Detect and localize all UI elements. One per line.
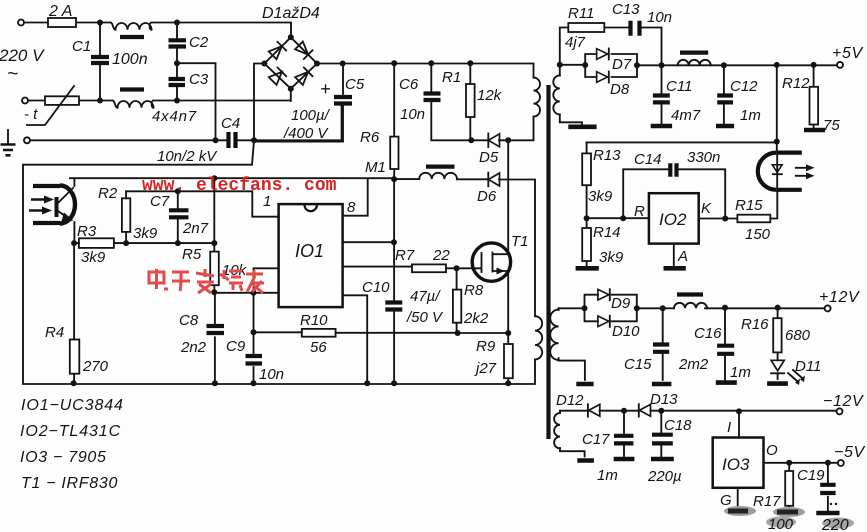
svg-text:150: 150 [745,226,771,243]
svg-text:4x4n7: 4x4n7 [152,108,197,125]
svg-text:R5: R5 [182,246,202,263]
svg-text:IO1: IO1 [295,241,324,261]
svg-text:R15: R15 [735,197,763,214]
svg-text:D10: D10 [612,323,640,340]
svg-text:R12: R12 [782,75,810,92]
svg-text:C17: C17 [582,431,610,448]
svg-text:2m2: 2m2 [678,356,709,373]
svg-text:D5: D5 [479,149,499,166]
svg-text:R17: R17 [753,493,781,510]
svg-text:10n: 10n [400,106,425,123]
svg-text:~: ~ [7,64,18,85]
svg-text:+: + [320,79,331,99]
svg-text:3k9: 3k9 [81,249,106,266]
svg-text:C16: C16 [694,325,722,342]
svg-text:R3: R3 [77,223,97,240]
svg-text:D13: D13 [650,391,678,408]
svg-text:C12: C12 [730,78,758,95]
svg-text:3k9: 3k9 [133,225,158,242]
svg-text:A: A [677,248,688,265]
svg-text:R16: R16 [741,316,769,333]
svg-text:3k9: 3k9 [588,188,613,205]
svg-text:2 A: 2 A [48,3,72,20]
svg-text:IO3: IO3 [722,455,750,474]
svg-text:C9: C9 [226,338,246,355]
svg-text:C2: C2 [189,34,209,51]
svg-text:C11: C11 [666,78,692,95]
svg-text:R2: R2 [98,185,118,202]
svg-text:47µ/: 47µ/ [410,288,441,305]
svg-text:D9: D9 [611,295,631,312]
svg-text:3k9: 3k9 [599,249,624,266]
svg-text:D11: D11 [795,358,821,375]
svg-text:4m7: 4m7 [671,107,701,124]
svg-text:100n: 100n [112,51,148,68]
svg-text:R10: R10 [300,312,328,329]
svg-text:1m: 1m [597,467,618,484]
svg-text:- t: - t [24,106,38,123]
svg-text:56: 56 [310,339,327,356]
svg-text:IO2−TL431C: IO2−TL431C [20,423,121,440]
svg-text:R13: R13 [593,147,621,164]
svg-text:C1: C1 [72,38,91,55]
svg-text:12k: 12k [477,87,503,104]
svg-text:K: K [701,200,712,217]
svg-text:C13: C13 [612,1,640,18]
svg-text:j27: j27 [474,360,497,377]
svg-text:+12V: +12V [819,289,860,306]
svg-text:100: 100 [768,516,794,532]
svg-text:R: R [634,203,645,220]
svg-text:+5V: +5V [832,45,863,62]
svg-text:330n: 330n [687,149,720,166]
svg-text:C8: C8 [179,312,199,329]
svg-text:D12: D12 [556,392,584,409]
svg-text:I: I [727,419,731,436]
svg-text:/50 V: /50 V [406,309,444,326]
svg-text:−12V: −12V [823,393,864,410]
svg-text:1m: 1m [730,364,751,381]
svg-text:IO1−UC3844: IO1−UC3844 [21,397,124,414]
svg-text:270: 270 [82,358,109,375]
svg-text:C18: C18 [664,417,692,434]
svg-text:2k2: 2k2 [463,310,489,327]
svg-text:R14: R14 [593,224,621,241]
svg-text:C6: C6 [399,76,419,93]
svg-text:T1 − IRF830: T1 − IRF830 [21,475,118,492]
svg-text:R8: R8 [464,282,484,299]
svg-text:D1ažD4: D1ažD4 [262,5,320,22]
svg-text:R11: R11 [568,5,594,22]
svg-text:C4: C4 [221,115,240,132]
svg-text:D8: D8 [610,81,630,98]
svg-text:R4: R4 [45,324,64,341]
svg-text:C15: C15 [624,356,652,373]
svg-text:220 V: 220 V [0,46,45,65]
svg-text:1m: 1m [740,107,761,124]
svg-text:G: G [720,492,732,509]
svg-text:O: O [766,442,778,459]
svg-text:R1: R1 [442,69,461,86]
svg-text:10n: 10n [259,366,284,383]
svg-text:R6: R6 [360,129,380,146]
svg-text:220: 220 [821,517,849,532]
svg-text:75: 75 [823,117,840,134]
svg-text:C3: C3 [189,71,209,88]
svg-text:10n/2 kV: 10n/2 kV [157,148,218,165]
svg-text:T1: T1 [511,233,529,250]
svg-text:C14: C14 [634,151,662,168]
svg-text:C10: C10 [362,279,390,296]
svg-text:www. elecfans. com: www. elecfans. com [142,176,337,196]
svg-text:220µ: 220µ [647,468,682,485]
svg-text:10n: 10n [647,9,672,26]
svg-text:100µ/: 100µ/ [291,107,331,124]
svg-text:D6: D6 [477,188,497,205]
svg-text:2n7: 2n7 [182,220,209,237]
svg-text:IO3 − 7905: IO3 − 7905 [20,449,107,466]
svg-text:C19: C19 [797,467,825,484]
svg-text:−5V: −5V [834,444,865,461]
svg-text:/400 V: /400 V [283,125,329,142]
svg-text:M1: M1 [365,159,386,176]
svg-text:680: 680 [785,327,811,344]
svg-text:8: 8 [347,199,356,216]
svg-text:22: 22 [432,247,450,264]
svg-text:C5: C5 [345,76,365,93]
svg-text:D7: D7 [612,56,632,73]
svg-text:4j7: 4j7 [565,34,586,51]
svg-text:R9: R9 [476,338,496,355]
svg-text:IO2: IO2 [659,210,687,229]
svg-text:2n2: 2n2 [180,339,207,356]
svg-text:R7: R7 [395,247,415,264]
